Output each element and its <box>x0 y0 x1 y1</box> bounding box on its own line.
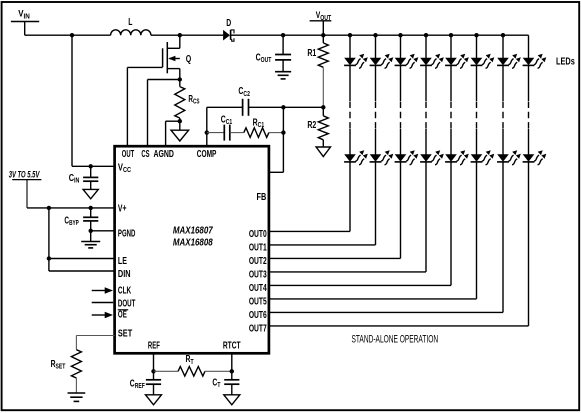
wire source to CS pin <box>148 80 180 147</box>
wire VIN to L <box>25 34 111 36</box>
junction RTCT node <box>230 369 234 373</box>
svg-text:OUT: OUT <box>122 148 134 159</box>
svg-text:OE: OE <box>118 309 127 320</box>
junction LED string 4 tap <box>424 33 428 37</box>
wire LED string 8 to OUT7 <box>269 162 529 326</box>
inductor L <box>111 16 151 35</box>
LED string 5 top diode <box>445 54 469 68</box>
wire LED string 8 middle (dashed) <box>528 65 530 154</box>
LED string 7 bottom diode <box>497 150 521 165</box>
junction LED string 7 tap <box>501 33 505 37</box>
svg-text:MAX16808: MAX16808 <box>173 236 213 247</box>
wire LED string 7 middle (dashed) <box>502 65 504 154</box>
svg-text:OUT2: OUT2 <box>249 254 267 266</box>
junction RC1 right <box>281 130 285 134</box>
LED string 3 top diode <box>395 54 419 68</box>
wire LE <box>49 258 115 260</box>
resistor RC1 <box>230 116 284 137</box>
svg-text:OUT5: OUT5 <box>249 295 267 307</box>
svg-text:RTCT: RTCT <box>223 339 241 351</box>
LED string 4 bottom diode <box>420 150 444 165</box>
junction RCS bottom <box>178 119 182 123</box>
wire LED string 6 top <box>476 35 478 58</box>
wire LED string 5 middle (dashed) <box>450 65 452 154</box>
capacitor CT <box>212 371 239 395</box>
ground COUT <box>275 71 291 73</box>
junction drain tap <box>178 33 182 37</box>
svg-text:AGND: AGND <box>153 148 173 160</box>
capacitor CBYP <box>64 208 98 231</box>
svg-text:PGND: PGND <box>118 228 136 239</box>
wire DIN <box>49 270 115 272</box>
transistor Q MOSFET <box>163 35 192 79</box>
svg-text:OUT4: OUT4 <box>249 281 267 293</box>
resistor R1 <box>307 35 328 67</box>
svg-text:CS: CS <box>141 148 150 159</box>
svg-text:D: D <box>226 17 231 29</box>
svg-text:LEDs: LEDs <box>556 55 575 66</box>
capacitor CC2 <box>207 85 284 116</box>
IC U1 MAX16807/MAX16808 box <box>115 146 269 353</box>
wire SET to RSET <box>76 336 114 350</box>
junction CBYP tap <box>89 206 93 210</box>
capacitor CC1 <box>207 113 233 140</box>
wire OE input arrow <box>92 312 113 318</box>
wire LED string 2 top <box>375 35 377 58</box>
node VOUT terminal <box>310 10 332 35</box>
junction VIN branch <box>70 33 74 37</box>
junction COUT tap <box>281 33 285 37</box>
wire to FB pin <box>269 171 284 173</box>
LED string 3 bottom diode <box>395 150 419 165</box>
svg-text:COMP: COMP <box>197 148 217 160</box>
junction REF node <box>151 369 155 373</box>
wire LED string 1 top <box>349 35 351 58</box>
resistor RCS <box>175 80 200 122</box>
capacitor CREF <box>130 371 161 395</box>
wire REF pin <box>153 353 155 371</box>
wire LED string 1 to OUT0 <box>269 162 350 232</box>
wire DOUT <box>92 302 114 304</box>
resistor RT <box>154 353 232 376</box>
LED string 7 top diode <box>497 54 521 68</box>
svg-text:Q: Q <box>186 53 192 64</box>
svg-text:STAND-ALONE OPERATION: STAND-ALONE OPERATION <box>352 333 439 345</box>
svg-text:CLK: CLK <box>118 284 131 296</box>
LED string 1 bottom diode <box>344 150 368 165</box>
wire LED string 4 middle (dashed) <box>425 65 427 154</box>
LED string 6 top diode <box>471 54 495 68</box>
LED string 2 top diode <box>370 54 394 68</box>
resistor RSET <box>51 350 82 378</box>
capacitor CIN <box>69 166 99 189</box>
pin OE with overline <box>118 309 128 320</box>
svg-text:L: L <box>128 16 132 28</box>
wire gate to OUT pin <box>127 67 162 146</box>
svg-text:FB: FB <box>257 191 267 202</box>
svg-text:R2: R2 <box>307 119 316 131</box>
wire LED string 5 top <box>450 35 452 58</box>
wire LED string 2 middle (dashed) <box>375 65 377 154</box>
node VIN terminal <box>11 8 39 35</box>
wire LED string 1 middle (dashed) <box>349 65 351 154</box>
svg-text:LE: LE <box>118 255 127 266</box>
svg-text:REF: REF <box>148 340 160 351</box>
svg-text:OUT1: OUT1 <box>249 241 267 253</box>
junction LED string 6 tap <box>474 33 478 37</box>
wire VIN branch down to VCC <box>71 35 73 166</box>
svg-text:OUT7: OUT7 <box>249 322 267 334</box>
ground CT <box>224 395 240 405</box>
ground R2 <box>316 140 330 157</box>
wire LED string 6 to OUT5 <box>269 162 477 299</box>
ground RSET <box>68 378 86 401</box>
junction FB divider node <box>321 105 325 109</box>
junction LED string 5 tap <box>449 33 453 37</box>
wire LED string 8 top <box>528 35 530 58</box>
LED string 1 top diode <box>344 54 368 68</box>
svg-text:DOUT: DOUT <box>118 298 135 309</box>
LED string 2 bottom diode <box>370 150 394 165</box>
wire CLK input arrow <box>92 287 113 293</box>
ground CREF <box>146 395 162 405</box>
wire LED string 6 middle (dashed) <box>476 65 478 154</box>
LED string 4 top diode <box>420 54 444 68</box>
junction LED string 1 tap <box>348 33 352 37</box>
junction CIN tap <box>89 164 93 168</box>
svg-text:OUT0: OUT0 <box>249 227 267 239</box>
wire RTCT pin <box>231 353 233 371</box>
LED string 8 bottom diode <box>523 150 547 165</box>
wire V+ <box>27 207 115 209</box>
wire COMP pin <box>206 133 208 147</box>
wire LED string 7 to OUT6 <box>269 162 503 313</box>
junction LED string 2 tap <box>373 33 377 37</box>
svg-text:DIN: DIN <box>118 268 131 279</box>
junction R1 tap <box>321 33 325 37</box>
wire LED string 4 top <box>425 35 427 58</box>
junction LE tap <box>47 256 51 260</box>
junction CC2 right <box>281 105 285 109</box>
svg-text:SET: SET <box>118 327 133 338</box>
wire LED string 5 to OUT4 <box>269 162 451 286</box>
ground CIN <box>83 189 98 198</box>
svg-text:OUT3: OUT3 <box>249 268 267 280</box>
wire LED string 3 top <box>400 35 402 58</box>
wire R1 to FB node <box>322 67 324 107</box>
LED string 5 bottom diode <box>445 150 469 165</box>
ground CBYP/PGND <box>81 231 100 248</box>
wire LED string 4 to OUT3 <box>269 162 426 272</box>
junction COMP node <box>205 130 209 134</box>
wire comp net vertical <box>282 107 284 172</box>
LED string 6 bottom diode <box>471 150 495 165</box>
junction source node <box>178 77 182 81</box>
resistor R2 <box>307 107 328 139</box>
label U1 part numbers <box>173 225 214 248</box>
wire RCS to AGND pin <box>166 121 180 146</box>
wire PGND pin <box>91 230 115 232</box>
junction LED string 3 tap <box>398 33 402 37</box>
LED string 8 top diode <box>523 54 547 68</box>
wire LED string 3 middle (dashed) <box>400 65 402 154</box>
svg-text:OUT6: OUT6 <box>249 308 267 320</box>
svg-text:R1: R1 <box>307 47 316 59</box>
wire VCC <box>72 165 115 167</box>
svg-text:MAX16807: MAX16807 <box>173 225 214 236</box>
node 3V TO 5.5V terminal <box>9 169 42 208</box>
wire L to D <box>151 34 223 36</box>
junction V+ branch <box>47 206 51 210</box>
wire VOUT rail <box>231 34 528 36</box>
wire COMP up branch <box>206 107 208 132</box>
wire FB node to divider <box>283 106 323 108</box>
svg-text:V+: V+ <box>118 202 127 214</box>
wire LED string 7 top <box>502 35 504 58</box>
wire LED string 2 to OUT1 <box>269 162 376 245</box>
wire LED string 3 to OUT2 <box>269 162 401 259</box>
ground AGND <box>171 121 189 141</box>
capacitor COUT <box>256 35 292 71</box>
wire V+ branch down to LE/DIN <box>48 208 50 271</box>
svg-text:3V TO 5.5V: 3V TO 5.5V <box>9 169 40 180</box>
diode D <box>223 17 234 42</box>
junction PGND node <box>89 229 93 233</box>
